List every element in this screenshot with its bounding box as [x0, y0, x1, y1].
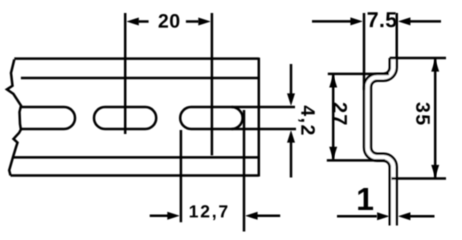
- dim arrow 20 right shaft: [186, 20, 199, 23]
- arrowhead 27 bottom: [329, 147, 337, 160]
- extension line 35 top: [390, 57, 446, 60]
- slot 2: [94, 107, 156, 129]
- label 4,2: [298, 106, 315, 135]
- break line (jagged left edge): [7, 59, 21, 175]
- slot 3: [180, 107, 242, 129]
- extension line 27 top: [328, 73, 389, 76]
- label 35: [416, 102, 430, 124]
- rail bottom edge: [11, 174, 259, 177]
- dim arrow 12,7 left shaft: [150, 215, 169, 218]
- dim arrow 20 left shaft: [138, 20, 149, 23]
- dim arrow 7.5 right shaft: [408, 20, 441, 23]
- extension line 12,7 right: [243, 110, 246, 232]
- extension line 35 bottom: [392, 177, 447, 180]
- label 20: [159, 14, 180, 28]
- rail top edge: [14, 57, 258, 60]
- extension line 4,2 bottom (slot tangent): [232, 128, 296, 131]
- dim arrow 1 right shaft: [409, 215, 435, 218]
- arrowhead 7.5 left: [350, 17, 363, 25]
- extension line 20 left: [124, 13, 127, 134]
- dim line 35: [434, 59, 437, 178]
- dim arrow 4,2 bottom shaft: [290, 141, 293, 178]
- arrowhead 35 top: [431, 59, 439, 72]
- rail fold line upper: [21, 77, 259, 80]
- label 1: [358, 188, 373, 210]
- dim arrow 12,7 right shaft: [256, 215, 280, 218]
- dim arrow 4,2 top shaft: [290, 64, 293, 95]
- arrowhead 27 top: [329, 75, 337, 88]
- arrowhead 1 left: [377, 212, 390, 220]
- arrowhead 4,2 top: [287, 93, 295, 106]
- arrowhead 35 bottom: [431, 165, 439, 178]
- arrowhead 1 right: [398, 212, 411, 220]
- label 12,7: [190, 205, 228, 220]
- arrowhead 7.5 right: [398, 17, 411, 25]
- extension line 4,2 top (slot tangent): [232, 106, 295, 109]
- cross-section strip inner white: [368, 58, 394, 226]
- extension line 12,7 left: [180, 130, 183, 222]
- extension line 27 bottom: [327, 159, 385, 162]
- dim arrow 7.5 left shaft: [312, 20, 353, 23]
- extension line 7.5 right: [396, 13, 399, 59]
- arrowhead 20 right: [198, 18, 211, 26]
- extension line 7.5 left: [363, 13, 366, 90]
- dim line 27: [332, 75, 335, 159]
- arrowhead 4,2 bottom: [287, 130, 295, 143]
- extension line 20 right: [211, 13, 214, 155]
- label 27: [333, 103, 347, 125]
- rail fold line lower: [14, 156, 259, 159]
- label 7.5: [368, 12, 397, 27]
- rail right end edge: [258, 58, 261, 177]
- cross-section strip outer stroke: [368, 58, 394, 226]
- arrowhead 20 left: [126, 18, 139, 26]
- arrowhead 12,7 left: [167, 212, 180, 220]
- dim arrow 1 left shaft: [337, 215, 377, 218]
- slot 1 (cut by break line): [21, 107, 75, 129]
- arrowhead 12,7 right: [245, 212, 258, 220]
